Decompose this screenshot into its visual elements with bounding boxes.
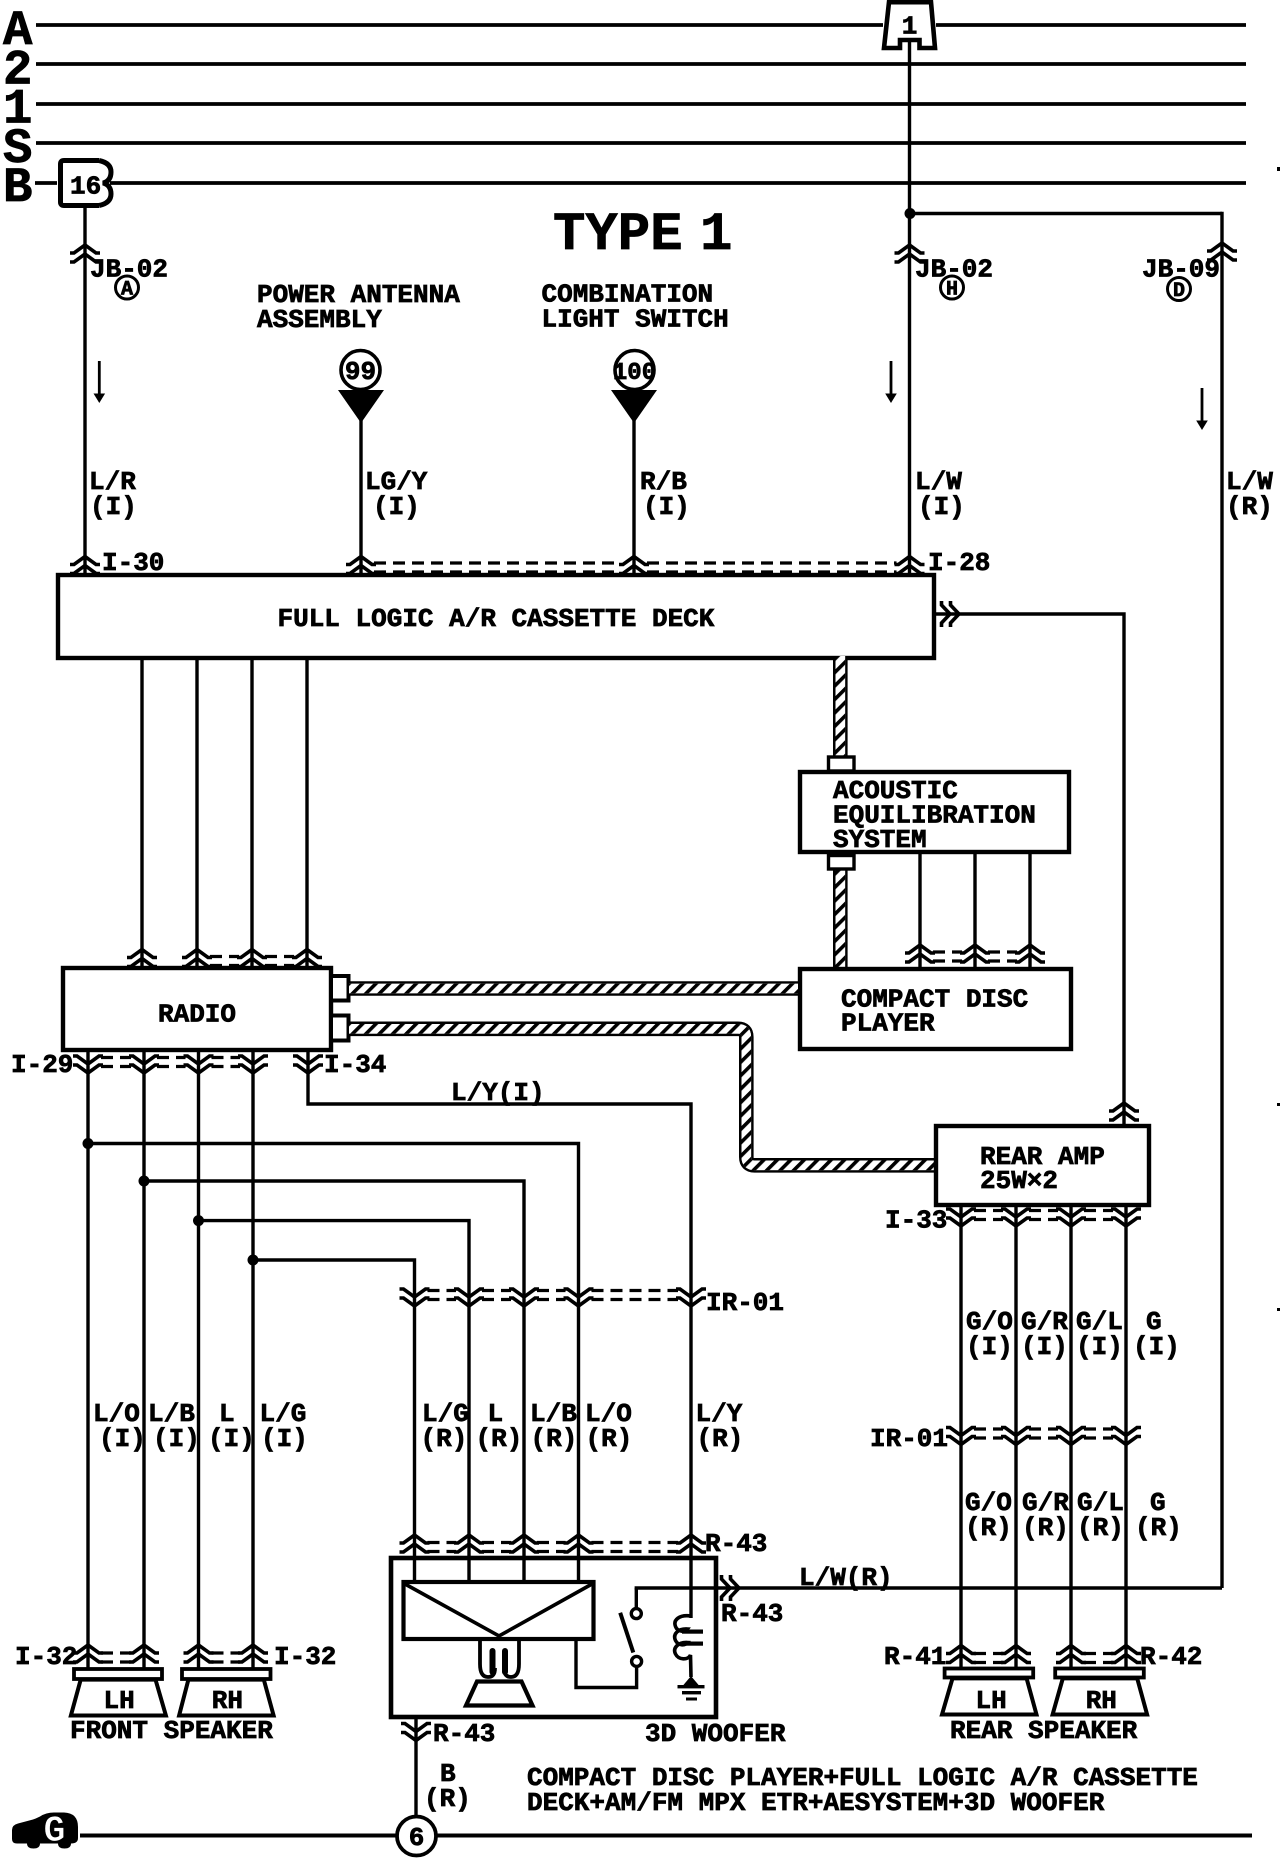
svg-text:(R): (R) [1226,492,1273,522]
page edge tick 1 [1277,167,1280,171]
svg-text:(I): (I) [918,492,965,522]
connector JB-02 A chevrons [70,245,100,262]
radio bottom dashes 3 [212,1056,241,1059]
wire from connector 16 down to cassette deck [83,205,86,577]
svg-text:100: 100 [613,360,656,387]
wire switch up [635,1588,638,1609]
svg-text:1: 1 [700,205,732,266]
svg-text:(R): (R) [476,1424,523,1454]
connector I-28 chevron (L/W wire) [895,557,925,574]
wire woofer to ground [414,1717,417,1817]
wire woofer in 3 [522,1558,525,1584]
wire light switch down [632,420,635,577]
woofer speaker magnet rect [404,1582,594,1639]
wire AES-CD 1 [918,852,921,969]
component FULL LOGIC A/R CASSETTE DECK box [58,575,934,658]
svg-text:LIGHT SWITCH: LIGHT SWITCH [542,305,729,335]
connector I-28 dashes 2 [647,561,897,564]
svg-text:D: D [1173,280,1185,303]
deck output chevrons to rear amp [942,601,960,627]
wire AES-CD 3 [1028,852,1031,969]
connector I-32 right chevrons [184,1645,214,1662]
radio connector tab lower [331,1016,349,1041]
rear speaker LH body [942,1678,1037,1714]
connector I-28 chevron (light switch wire) [619,557,649,574]
I-32 right dashes [212,1651,241,1654]
R-41 dashes [974,1652,1003,1655]
IR-01 right chevron 4 [1111,1428,1141,1445]
circled A [116,276,139,299]
R-43 top chevron 2 [454,1535,484,1552]
CD top chevron 2 [960,945,990,962]
R-43 top chevron 3 [509,1535,539,1552]
rear amp chevron 1 [946,1209,976,1226]
CD top chevron 3 [1015,945,1045,962]
cable collar below AES [829,856,855,870]
rear amp chevron 3 [1056,1209,1086,1226]
radio bottom dashes 1 [101,1056,131,1059]
circled H [941,276,964,299]
wire woofer in 1 [413,1558,416,1584]
junction dot L/O [83,1138,94,1149]
svg-text:RH: RH [212,1686,243,1716]
connector I-30 chevrons [70,557,100,574]
connector R-41 chevrons [946,1646,976,1663]
svg-text:RH: RH [1086,1686,1117,1716]
IR-01 right dashes 2 [1029,1427,1058,1430]
wire deck-radio 3 [250,658,253,968]
wire from fuse 1 down to cassette deck [908,40,911,577]
svg-text:REAR SPEAKER: REAR SPEAKER [950,1716,1138,1746]
radio bottom dashes 2 [157,1056,186,1059]
svg-text:(R): (R) [586,1424,633,1454]
radio bottom chevron 2 [129,1056,159,1073]
svg-text:(I): (I) [966,1332,1013,1362]
svg-text:I-28: I-28 [928,548,990,578]
svg-text:6: 6 [409,1823,425,1853]
svg-text:FRONT SPEAKER: FRONT SPEAKER [70,1716,273,1746]
svg-text:ASSEMBLY: ASSEMBLY [257,305,382,335]
cable collar above AES [829,757,855,771]
ground bus line right [436,1834,1252,1838]
radio top dashes 2 [265,955,294,958]
component ACOUSTIC EQUILIBRATION SYSTEM box [800,772,1069,852]
svg-text:R-43: R-43 [433,1719,495,1749]
svg-text:(I): (I) [208,1424,255,1454]
woofer switch upper contact [631,1609,641,1619]
component COMPACT DISC PLAYER box [800,969,1071,1049]
woofer switch lever [620,1613,633,1653]
IR-01 left chevron 4 [564,1289,594,1306]
rear speaker RH bar [1055,1669,1144,1678]
page edge tick 2 [1277,1103,1280,1106]
wire woofer in 4 [577,1558,580,1584]
wire woofer in 2 [467,1558,470,1584]
connector I-28 chevron (antenna wire) [346,557,376,574]
IR-01 left dashes 4 [592,1289,679,1292]
front speaker LH bar [74,1669,162,1679]
wire deck-radio 1 [140,658,143,968]
IR-01 left chevron 3 [509,1289,539,1306]
connector 16 box [61,161,100,206]
wire switch to speaker [576,1639,637,1688]
woofer switch lower contact [632,1656,642,1666]
wire L(I) front-right [197,1050,200,1671]
radio bottom chevron 4 [238,1056,268,1073]
svg-text:(I): (I) [99,1424,146,1454]
bus line B (right of 16) [110,181,1246,185]
svg-text:3D WOOFER: 3D WOOFER [645,1719,786,1749]
shielded cable radio to CD player [349,981,798,996]
wire L/G(I) front-right2 [251,1050,254,1671]
radio top dashes 1 [210,955,239,958]
junction dot fuse branch [905,208,916,219]
svg-text:16: 16 [70,172,101,202]
svg-text:R-41: R-41 [884,1642,946,1672]
svg-text:I-32: I-32 [274,1642,336,1672]
woofer voice coil [480,1640,495,1677]
junction dot L [193,1215,204,1226]
IR-01 left chevron 1 [400,1289,430,1306]
connector I-32 left chevrons [73,1645,103,1662]
shielded cable AES to CD player [833,869,848,967]
svg-text:LH: LH [104,1686,135,1716]
IR-01 left chevron 5 [676,1289,706,1306]
svg-text:PLAYER: PLAYER [841,1009,935,1039]
svg-text:SYSTEM: SYSTEM [833,825,927,855]
wire branch L(R) [199,1221,470,1584]
page edge tick 3 [1277,1308,1280,1311]
IR-01 right chevron 2 [1001,1428,1031,1445]
power antenna feed triangle [338,390,384,423]
svg-text:I-29: I-29 [11,1050,73,1080]
IR-01 right dashes 1 [974,1427,1003,1430]
radio bottom chevron 3 [184,1056,214,1073]
wire G/O rear [959,1205,962,1671]
wire G/R rear [1014,1205,1017,1671]
svg-text:(I): (I) [1021,1332,1068,1362]
svg-text:(R): (R) [424,1784,471,1814]
svg-text:(I): (I) [90,492,137,522]
svg-text:L/Y(I): L/Y(I) [451,1078,545,1108]
front speaker LH body [71,1680,166,1716]
I-33 dashes 1 [974,1209,1003,1212]
svg-text:G: G [43,1811,65,1853]
wire L/Y(R) to coil [689,1558,692,1618]
radio bottom chevron 1 [73,1056,103,1073]
svg-text:(R): (R) [965,1513,1012,1543]
I-33 dashes 3 [1084,1209,1113,1212]
rear speaker RH body [1053,1678,1148,1714]
wire B-to-16 [35,181,57,185]
connector JB-02 H chevrons [895,245,925,262]
svg-text:25W×2: 25W×2 [980,1166,1058,1196]
R-43 top chevron 1 [400,1535,430,1552]
woofer speaker V [405,1584,592,1636]
R-43 top dashes 1 [428,1541,457,1544]
svg-text:FULL LOGIC A/R CASSETTE DECK: FULL LOGIC A/R CASSETTE DECK [278,604,715,634]
shielded cable radio to rear amp [349,1029,934,1166]
rear speaker LH bar [945,1669,1034,1678]
connector JB-09 D chevrons [1207,243,1237,260]
wire branch L/O(R) [88,1144,579,1585]
woofer coil [675,1616,691,1677]
bus line A (right segment) [936,23,1246,27]
CD top dashes 1 [933,950,962,953]
svg-text:RADIO: RADIO [158,1000,236,1030]
shielded cable deck to AES [833,656,848,757]
wire deck-radio 4 [305,658,308,968]
light switch feed triangle [611,390,657,423]
IR-01 left dashes 2 [482,1289,511,1292]
svg-text:L/W(R): L/W(R) [799,1563,893,1593]
woofer cone [466,1682,533,1706]
connector I-28 dashes 1 [374,561,621,564]
wire G/L rear [1069,1205,1072,1671]
ground node 6 circle [397,1817,436,1856]
bus line 1 [36,102,1246,106]
wire deck to rear amp [934,614,1124,1126]
svg-text:99: 99 [345,357,376,387]
wire L/Y radio to woofer [308,1050,691,1560]
R-43 bottom chevrons [401,1724,431,1741]
svg-text:R-43: R-43 [705,1529,767,1559]
svg-text:(R): (R) [531,1424,578,1454]
R-43 top dashes 2 [482,1541,511,1544]
svg-text:(I): (I) [643,492,690,522]
svg-text:(R): (R) [1077,1513,1124,1543]
bus line S [36,141,1246,145]
component RADIO box [63,968,331,1050]
bus line 2 [36,62,1246,66]
connector R-42 chevrons [1056,1646,1086,1663]
R-43 top chevron 5 [676,1535,706,1552]
power antenna source circle 99 [341,351,380,390]
svg-text:(I): (I) [261,1424,308,1454]
I-32 left dashes [101,1651,131,1654]
arrow down (L/W I feed) [890,361,893,395]
I-33 dashes 2 [1029,1209,1058,1212]
front speaker RH body [179,1680,274,1716]
R-42 dashes [1084,1652,1113,1655]
svg-text:I-33: I-33 [885,1206,947,1236]
svg-text:B: B [3,160,32,216]
svg-text:IR-01: IR-01 [870,1424,948,1454]
svg-text:TYPE: TYPE [553,205,683,266]
radio top chevron 3 [237,950,267,967]
svg-text:IR-01: IR-01 [706,1288,784,1318]
rear amp chevron 4 [1111,1209,1141,1226]
component REAR AMP box [936,1126,1149,1205]
wire branch L/G(R) [253,1260,415,1584]
rear amp chevron 2 [1001,1209,1031,1226]
junction dot L/B [139,1176,150,1187]
light switch source circle 100 [615,351,654,390]
svg-text:H: H [946,279,958,302]
IR-01 right chevron 3 [1056,1428,1086,1445]
svg-text:(I): (I) [1076,1332,1123,1362]
component 3D WOOFER box [391,1558,716,1717]
wire branch L/B(R) [144,1181,524,1584]
svg-text:DECK+AM/FM MPX ETR+AESYSTEM+3D: DECK+AM/FM MPX ETR+AESYSTEM+3D WOOFER [527,1788,1105,1818]
R-43 top dashes 3 [537,1541,566,1544]
arrow down (L/W R feed) [1201,388,1204,422]
svg-text:I-34: I-34 [324,1050,386,1080]
CD top chevron 1 [905,945,935,962]
IR-01 right chevron 1 [946,1428,976,1445]
svg-text:I-32: I-32 [15,1642,77,1672]
connector I-34 chevron [293,1056,323,1073]
radio top chevron 2 [182,950,212,967]
radio top chevron 1 [127,950,157,967]
rear amp input chevrons [1109,1103,1139,1120]
svg-text:R-43: R-43 [721,1599,783,1629]
front speaker RH bar [182,1669,271,1679]
svg-text:1: 1 [902,12,918,42]
junction dot L/G [248,1255,259,1266]
arrow down (left feed) [98,361,101,395]
wire L/W(R) vertical [1220,212,1223,1588]
IR-01 left dashes 1 [428,1289,457,1292]
IR-01 left chevron 2 [454,1289,484,1306]
wire AES-CD 2 [973,852,976,969]
svg-text:(R): (R) [421,1424,468,1454]
wire G rear [1124,1205,1127,1671]
svg-text:(I): (I) [153,1424,200,1454]
svg-text:(R): (R) [1022,1513,1069,1543]
circled D [1168,278,1191,301]
bus line A (left segment) [36,23,883,27]
wire power antenna down [359,420,362,577]
wire L/O(I) front-left [86,1050,89,1671]
R-43 top dashes 4 [592,1541,679,1544]
svg-text:(R): (R) [697,1424,744,1454]
radio connector tab upper [331,976,349,1001]
svg-text:(I): (I) [373,492,420,522]
IR-01 left dashes 3 [537,1289,566,1292]
svg-text:(I): (I) [1133,1332,1180,1362]
svg-text:A: A [121,279,133,302]
wire L/B(I) front-left2 [142,1050,145,1671]
radio top chevron 4 [292,950,322,967]
wire branch to JB-09 [908,212,1222,215]
ground bus line left [80,1834,397,1838]
svg-text:R-42: R-42 [1140,1642,1202,1672]
CD top dashes 2 [988,950,1017,953]
IR-01 right dashes 3 [1084,1427,1113,1430]
R-43 top chevron 4 [564,1535,594,1552]
woofer internal ground [683,1676,699,1686]
woofer exit chevrons [722,1575,740,1601]
svg-text:LH: LH [976,1686,1007,1716]
svg-text:(R): (R) [1135,1513,1182,1543]
wire deck-radio 2 [195,658,198,968]
fuse 1 [884,2,935,48]
ground icon G [12,1813,78,1849]
wire L/W(R) out of woofer [635,1586,1222,1589]
